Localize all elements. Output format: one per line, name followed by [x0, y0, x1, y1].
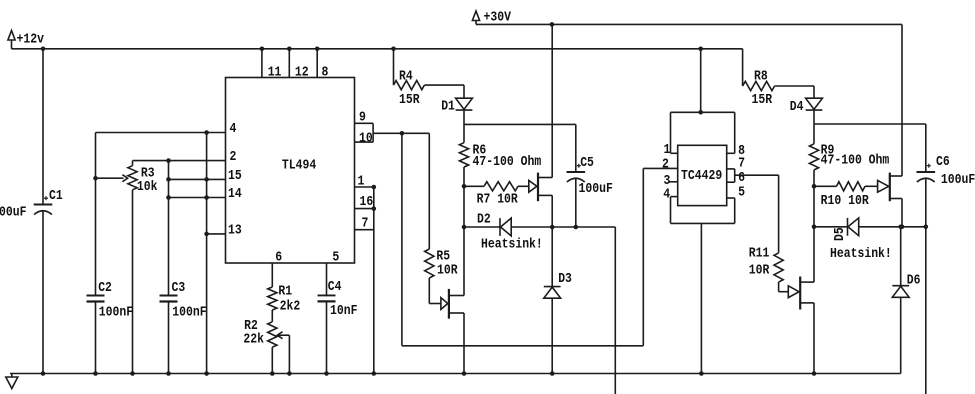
svg-text:D3: D3	[558, 271, 572, 287]
svg-text:15R: 15R	[752, 92, 773, 108]
svg-text:11: 11	[268, 65, 282, 81]
svg-text:9: 9	[359, 110, 366, 126]
svg-text:5: 5	[738, 185, 745, 201]
svg-text:14: 14	[228, 186, 242, 202]
svg-text:10: 10	[359, 130, 373, 146]
svg-text:100nF: 100nF	[172, 305, 206, 321]
svg-text:C1: C1	[49, 188, 63, 204]
svg-text:C3: C3	[172, 280, 186, 296]
svg-text:8: 8	[322, 65, 329, 81]
svg-text:2: 2	[662, 156, 669, 172]
svg-text:1: 1	[358, 174, 365, 190]
svg-text:D5: D5	[832, 227, 848, 241]
svg-text:10R: 10R	[749, 262, 770, 278]
svg-text:4: 4	[230, 121, 237, 137]
svg-text:+12v: +12v	[17, 32, 45, 48]
svg-text:10k: 10k	[137, 179, 158, 195]
svg-text:R8: R8	[754, 69, 768, 85]
svg-text:15: 15	[228, 168, 242, 184]
svg-text:47-100 Ohm: 47-100 Ohm	[821, 152, 890, 168]
svg-text:C5: C5	[580, 155, 594, 171]
svg-text:+30V: +30V	[484, 10, 512, 26]
svg-text:16: 16	[360, 194, 374, 210]
svg-text:15R: 15R	[399, 92, 420, 108]
svg-text:13: 13	[228, 222, 242, 238]
svg-text:6: 6	[738, 170, 745, 186]
svg-text:R7 10R: R7 10R	[477, 192, 519, 208]
svg-text:TC4429: TC4429	[681, 168, 722, 184]
svg-text:100uF: 100uF	[941, 172, 975, 188]
svg-text:R10 10R: R10 10R	[821, 193, 870, 209]
svg-text:100uF: 100uF	[579, 181, 613, 197]
svg-text:10R: 10R	[437, 263, 458, 279]
svg-text:Heatsink!: Heatsink!	[481, 236, 543, 252]
svg-text:10nF: 10nF	[330, 303, 358, 319]
svg-text:00uF: 00uF	[0, 205, 27, 221]
svg-text:2k2: 2k2	[280, 299, 301, 315]
svg-text:R1: R1	[278, 283, 292, 299]
svg-text:D1: D1	[441, 99, 455, 115]
svg-text:D4: D4	[790, 99, 804, 115]
svg-text:C6: C6	[936, 154, 950, 170]
svg-text:4: 4	[663, 187, 670, 203]
svg-text:R4: R4	[399, 69, 413, 85]
svg-text:22k: 22k	[243, 331, 264, 347]
svg-text:7: 7	[362, 216, 369, 232]
svg-text:47-100 Ohm: 47-100 Ohm	[473, 154, 542, 170]
svg-text:TL494: TL494	[282, 157, 316, 173]
svg-text:R11: R11	[749, 246, 770, 262]
svg-text:6: 6	[275, 250, 282, 266]
svg-text:C4: C4	[328, 279, 342, 295]
svg-text:D6: D6	[907, 272, 921, 288]
svg-text:100nF: 100nF	[99, 305, 133, 321]
svg-text:C2: C2	[98, 280, 112, 296]
svg-text:7: 7	[738, 155, 745, 171]
svg-text:2: 2	[230, 149, 237, 165]
svg-text:Heatsink!: Heatsink!	[830, 246, 892, 262]
svg-text:12: 12	[295, 65, 309, 81]
svg-text:5: 5	[332, 249, 339, 265]
svg-text:D2: D2	[477, 211, 491, 227]
